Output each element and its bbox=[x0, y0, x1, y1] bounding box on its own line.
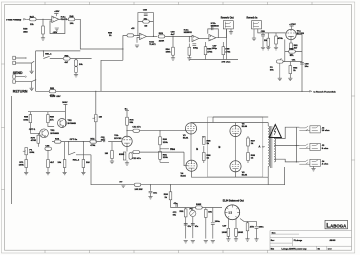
resistor R47 bbox=[30, 18, 37, 21]
transistor TR2 bbox=[58, 119, 67, 128]
wire send bus bbox=[36, 51, 81, 80]
pot P1 bbox=[23, 148, 28, 155]
capacitor feedback IC2a bbox=[192, 44, 196, 46]
wire PSU row bbox=[171, 207, 223, 209]
wire grid row V2 bbox=[52, 141, 122, 143]
svg-text:470k: 470k bbox=[278, 37, 284, 40]
svg-text:47u: 47u bbox=[174, 202, 178, 205]
node input junction bbox=[42, 19, 43, 20]
svg-text:EL84: EL84 bbox=[242, 173, 248, 176]
logo Laboga box bbox=[325, 220, 348, 228]
wire jack pin down bbox=[226, 29, 228, 60]
resistor R73 bbox=[54, 140, 61, 143]
resistor R72 bbox=[47, 150, 49, 159]
svg-text:+15V -15V: +15V -15V bbox=[50, 96, 61, 98]
ground return bbox=[31, 82, 33, 88]
resistor R68 bbox=[29, 112, 31, 115]
wire grid drop bbox=[284, 40, 286, 62]
svg-text:1 / 2: 1 / 2 bbox=[328, 248, 332, 250]
svg-text:470k: 470k bbox=[207, 50, 213, 53]
resistor R56 bbox=[205, 42, 207, 47]
wire screen tap bbox=[213, 117, 268, 123]
resistor R90 bbox=[169, 192, 172, 200]
wire reverb pot row bbox=[283, 61, 302, 63]
resistor R81 bbox=[159, 151, 162, 159]
svg-text:100n: 100n bbox=[259, 227, 265, 229]
triode V1a bbox=[286, 29, 296, 39]
valve V3 EL84 bbox=[185, 123, 196, 134]
ground reverb out bbox=[230, 29, 232, 32]
transformer core bbox=[271, 126, 272, 168]
transformer T1 secondary bbox=[274, 139, 275, 162]
svg-text:Reverb Out: Reverb Out bbox=[221, 17, 234, 20]
svg-text:1M: 1M bbox=[99, 117, 102, 119]
resistor R63 bbox=[289, 62, 291, 66]
op-amp IC1a bbox=[52, 16, 59, 22]
jack speaker 4 ohm bbox=[299, 159, 320, 166]
svg-text:B: B bbox=[196, 147, 198, 151]
svg-text:1M: 1M bbox=[105, 153, 108, 155]
svg-text:10u: 10u bbox=[305, 66, 309, 68]
wire to relay bbox=[42, 51, 44, 57]
resistor R69 bbox=[47, 112, 49, 115]
capacitor C57 bbox=[211, 26, 213, 30]
capacitor C70 bbox=[150, 185, 152, 191]
resistor R49 bbox=[68, 18, 75, 21]
jack speaker 8 ohm bbox=[299, 143, 320, 150]
resistor R80 bbox=[159, 137, 162, 145]
resistor R95 on row bbox=[196, 206, 203, 209]
svg-text:22n: 22n bbox=[101, 140, 105, 142]
wire R48 to ground bbox=[42, 34, 44, 38]
resistor R48 bbox=[42, 26, 45, 34]
warning triangle bbox=[269, 125, 281, 138]
transformer T1 primary bbox=[268, 123, 269, 178]
ground on bus bbox=[121, 185, 125, 187]
resistor R98 bbox=[235, 228, 238, 236]
svg-text:BC546B: BC546B bbox=[68, 122, 77, 125]
valve V5 EL84 bbox=[230, 125, 241, 136]
svg-text:47R: 47R bbox=[250, 226, 254, 229]
border tick marks top bbox=[45, 2, 312, 5]
border tick marks left bbox=[1, 64, 4, 190]
wire feedback loop IC2b bbox=[208, 29, 219, 38]
wire secondary to jacks bbox=[274, 127, 299, 162]
ground IC1b bbox=[137, 38, 140, 43]
svg-text:Laboga AD30TC power amp: Laboga AD30TC power amp bbox=[282, 247, 308, 250]
wire reverb in signal bbox=[258, 29, 286, 33]
svg-text:100k: 100k bbox=[166, 52, 172, 54]
jack RETURN bbox=[13, 75, 16, 83]
switch REL-2 bbox=[69, 142, 91, 155]
svg-text:EL84: EL84 bbox=[181, 174, 187, 177]
resistor R89 on bus bbox=[134, 183, 141, 186]
wire heater pins bbox=[228, 219, 236, 228]
wire IC1b out bbox=[147, 35, 158, 37]
cathode network V2 bbox=[126, 147, 128, 152]
svg-text:From Preamp: From Preamp bbox=[6, 19, 21, 21]
resistor R88 bbox=[247, 153, 250, 161]
resistor R78 bbox=[111, 142, 113, 151]
wire IC2b out to jack bbox=[218, 29, 226, 38]
resistor R59 bbox=[267, 33, 269, 39]
svg-text:10n: 10n bbox=[153, 193, 157, 195]
ground send bbox=[31, 63, 33, 71]
svg-text:ECC83: ECC83 bbox=[114, 138, 122, 140]
valve V4 EL84 bbox=[186, 160, 197, 171]
wire output to corner bbox=[75, 19, 123, 91]
resistor R91 bbox=[185, 208, 187, 209]
pot hum balance bbox=[192, 208, 194, 211]
capacitor C60 bbox=[300, 63, 304, 65]
ground bbox=[41, 38, 45, 40]
svg-text:to Reverb Footswitch: to Reverb Footswitch bbox=[314, 90, 337, 93]
resistor R51 bbox=[64, 57, 71, 60]
valve V6 EL84 bbox=[230, 161, 241, 172]
svg-text:100k: 100k bbox=[23, 119, 29, 121]
node junctions grid row bbox=[68, 141, 69, 142]
svg-text:Bias: Bias bbox=[170, 149, 176, 151]
pot reverb level bbox=[277, 60, 284, 63]
resistor R87 bbox=[247, 138, 250, 146]
wire supply rail bbox=[28, 111, 65, 113]
node return junction bbox=[35, 79, 36, 80]
resistor R60 bbox=[275, 33, 277, 36]
capacitor C12 bbox=[133, 129, 140, 132]
svg-text:100R: 100R bbox=[196, 204, 202, 206]
capacitor C74 bbox=[212, 208, 214, 223]
node bus junction bbox=[150, 184, 151, 185]
resistor input to ground bbox=[188, 44, 190, 48]
svg-text:EL84: EL84 bbox=[183, 136, 189, 139]
svg-text:100k: 100k bbox=[29, 152, 35, 154]
svg-text:220R: 220R bbox=[159, 40, 165, 42]
svg-text:EL84 Balanced Out: EL84 Balanced Out bbox=[223, 200, 244, 203]
input arrow bbox=[24, 19, 27, 21]
svg-text:16 ohm: 16 ohm bbox=[322, 130, 330, 132]
svg-text:10R 5W: 10R 5W bbox=[135, 189, 144, 191]
ground bbox=[188, 55, 190, 57]
box optional pair bbox=[208, 117, 263, 177]
svg-text:100R: 100R bbox=[238, 232, 244, 234]
svg-text:820R: 820R bbox=[119, 154, 125, 156]
svg-text:P.Laboga: P.Laboga bbox=[294, 240, 303, 242]
resistor R75 anode bbox=[126, 131, 128, 136]
svg-text:REL-2: REL-2 bbox=[73, 160, 80, 162]
svg-text:Reverb In: Reverb In bbox=[247, 17, 258, 20]
resistor R53 bbox=[158, 35, 165, 38]
wire feedback loop IC1b bbox=[138, 13, 154, 37]
wire pot to ground bbox=[75, 72, 77, 74]
resistor R85 bbox=[203, 136, 206, 144]
jack Reverb Out bbox=[223, 21, 233, 29]
wire cathode link left bbox=[191, 134, 236, 161]
wire relay to pot bbox=[70, 59, 92, 62]
svg-text:270 ohm: 270 ohm bbox=[222, 62, 231, 64]
svg-text:220k: 220k bbox=[163, 142, 169, 144]
op-amp IC2a bbox=[192, 35, 199, 41]
resistor R99 bbox=[246, 223, 249, 231]
resistor R71 bbox=[25, 160, 28, 168]
wire bottom HT bus bbox=[91, 155, 285, 185]
wire left bus bbox=[11, 96, 13, 204]
ground R54 bbox=[172, 55, 174, 57]
node send junction bbox=[43, 50, 44, 51]
svg-text:OPT-1a: OPT-1a bbox=[70, 139, 78, 141]
op-amp IC2b bbox=[209, 35, 216, 41]
svg-text:NE5532: NE5532 bbox=[184, 32, 193, 34]
jack SEND bbox=[13, 56, 16, 64]
svg-text:BC546B: BC546B bbox=[50, 132, 59, 135]
resistor R74 bbox=[90, 140, 97, 143]
svg-text:100n: 100n bbox=[215, 221, 221, 223]
svg-text:AW-05: AW-05 bbox=[330, 239, 336, 242]
svg-text:C12 47n: C12 47n bbox=[132, 126, 141, 129]
resistor R97 bbox=[227, 228, 230, 236]
wire reverb drive row bbox=[123, 35, 140, 60]
node IC1b input bbox=[137, 35, 138, 36]
wire PSU drop bbox=[170, 185, 172, 192]
svg-text:RETURN: RETURN bbox=[13, 89, 28, 93]
ground bbox=[74, 75, 78, 77]
svg-text:+15V: +15V bbox=[54, 11, 60, 13]
resistor R52 bbox=[49, 90, 56, 93]
title block frame bbox=[270, 231, 352, 251]
wire right psu column bbox=[240, 219, 257, 227]
capacitor C65 bbox=[45, 147, 52, 150]
transistor TR1 bbox=[40, 129, 49, 138]
triode V2 bbox=[122, 136, 132, 146]
svg-text:100k: 100k bbox=[19, 164, 25, 166]
wire IC2a out bbox=[199, 37, 209, 39]
svg-text:4 ohm: 4 ohm bbox=[322, 163, 328, 166]
svg-text:B: B bbox=[219, 145, 221, 149]
jack speaker 16 ohm bbox=[299, 126, 320, 133]
svg-text:C61: C61 bbox=[292, 59, 295, 61]
svg-text:TL072: TL072 bbox=[149, 44, 156, 46]
svg-text:Mat: Mat bbox=[271, 247, 275, 250]
wire to R48 bbox=[42, 19, 44, 26]
svg-text:100p: 100p bbox=[212, 48, 218, 50]
svg-text:100R: 100R bbox=[222, 232, 228, 234]
capacitor C75 bbox=[255, 227, 259, 229]
capacitor C71 bbox=[176, 203, 178, 207]
svg-text:+170V: +170V bbox=[289, 24, 296, 26]
op-amp IC1b bbox=[140, 33, 147, 39]
svg-text:A: A bbox=[259, 144, 261, 148]
wire anode out down to trunk bbox=[296, 35, 302, 92]
svg-text:1M: 1M bbox=[264, 40, 267, 42]
resistor R77 bbox=[82, 142, 84, 160]
wire feedback loop IC1a bbox=[50, 19, 65, 33]
arrow to footswitch bbox=[310, 91, 312, 93]
wire IC1a output bbox=[59, 18, 68, 20]
resistor R61 cathode bbox=[290, 40, 292, 44]
pot volume bbox=[95, 91, 97, 114]
resistor R76 bbox=[64, 142, 66, 160]
svg-text:220k: 220k bbox=[163, 157, 169, 159]
border tick marks bottom bbox=[45, 250, 268, 253]
resistor R62 feedback bbox=[285, 51, 302, 53]
svg-text:EL84: EL84 bbox=[242, 125, 248, 128]
node trunk junction bbox=[301, 91, 302, 92]
svg-text:C13 47n: C13 47n bbox=[132, 157, 141, 160]
border tick marks right bbox=[352, 96, 355, 160]
ground speaker bbox=[313, 166, 315, 168]
resistor R50 bbox=[127, 34, 134, 37]
svg-text:300V: 300V bbox=[62, 102, 68, 104]
resistor R70 bbox=[37, 133, 39, 135]
resistor R58 bbox=[222, 42, 224, 47]
pot mix level bbox=[74, 60, 77, 67]
svg-text:NE5532: NE5532 bbox=[211, 26, 220, 28]
svg-text:100p: 100p bbox=[193, 47, 199, 49]
valve base diagram bbox=[225, 205, 240, 220]
svg-text:REL-1: REL-1 bbox=[45, 54, 52, 56]
wire input line bbox=[26, 18, 52, 20]
svg-text:470R: 470R bbox=[31, 139, 37, 142]
resistor R86 bbox=[203, 153, 206, 161]
wire bottom row reverb bbox=[189, 55, 238, 60]
svg-text:OPT-1: OPT-1 bbox=[29, 129, 36, 131]
svg-text:-15V: -15V bbox=[53, 32, 58, 34]
node C56 bbox=[172, 36, 173, 37]
svg-text:8 ohm: 8 ohm bbox=[322, 148, 328, 150]
ground reverb in bbox=[253, 29, 255, 38]
wire main trunk to reverb footswitch bbox=[36, 80, 310, 92]
resistor R55 feedback bbox=[143, 20, 150, 23]
resistor R96 bbox=[205, 208, 207, 210]
node anode junction bbox=[126, 130, 127, 131]
svg-text:LABOGA: LABOGA bbox=[326, 222, 347, 229]
svg-text:470k: 470k bbox=[90, 144, 96, 147]
resistor R54 bbox=[172, 36, 174, 47]
wire anode bottom row bbox=[192, 171, 269, 177]
svg-text:1M: 1M bbox=[144, 26, 147, 28]
wire anode top row bbox=[191, 122, 268, 125]
wire coupling row 1 bbox=[127, 130, 188, 132]
wire coupling row 2 bbox=[132, 152, 188, 166]
jack Reverb In bbox=[252, 21, 262, 29]
wire to IC2a bbox=[165, 36, 192, 42]
svg-text:SEND: SEND bbox=[13, 71, 23, 75]
capacitor C13 bbox=[133, 151, 140, 154]
